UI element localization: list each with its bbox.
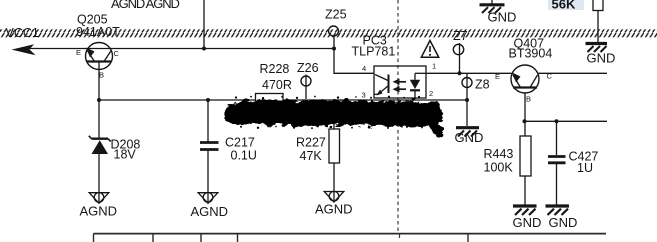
svg-text:2: 2 — [429, 89, 433, 98]
svg-text:R443: R443 — [484, 147, 514, 161]
svg-text:1: 1 — [432, 62, 436, 71]
svg-text:1U: 1U — [577, 161, 593, 175]
svg-text:Z8: Z8 — [475, 78, 490, 92]
svg-text:Z26: Z26 — [297, 61, 319, 75]
svg-text:56K: 56K — [552, 0, 576, 12]
svg-text:E: E — [495, 72, 500, 81]
svg-text:GND: GND — [587, 51, 616, 66]
svg-text:C217: C217 — [225, 136, 255, 150]
svg-text:47K: 47K — [300, 149, 323, 163]
svg-text:AGND: AGND — [80, 204, 118, 219]
svg-text:100K: 100K — [484, 161, 514, 175]
svg-text:GND: GND — [488, 10, 517, 25]
svg-text:GND: GND — [455, 130, 484, 145]
svg-text:18V: 18V — [114, 148, 137, 162]
svg-text:470R: 470R — [262, 78, 292, 92]
svg-text:R227: R227 — [296, 136, 326, 150]
svg-text:B: B — [99, 71, 104, 80]
svg-text:C: C — [114, 49, 120, 58]
svg-text:BT3904: BT3904 — [509, 47, 553, 61]
svg-text:VCC1: VCC1 — [6, 26, 39, 40]
svg-text:AGND: AGND — [315, 202, 353, 217]
svg-text:B: B — [526, 95, 531, 104]
svg-text:Z25: Z25 — [325, 8, 347, 22]
svg-text:3: 3 — [362, 91, 366, 100]
svg-text:GND: GND — [513, 215, 542, 230]
svg-text:R228: R228 — [260, 62, 290, 76]
svg-text:GND: GND — [549, 215, 578, 230]
svg-text:AGND: AGND — [191, 204, 229, 219]
svg-text:C: C — [547, 72, 553, 81]
svg-text:4: 4 — [362, 64, 366, 73]
svg-text:E: E — [76, 48, 81, 57]
svg-text:Z7: Z7 — [453, 29, 468, 43]
svg-text:TLP781: TLP781 — [352, 45, 396, 59]
svg-text:941A0T: 941A0T — [76, 25, 120, 39]
svg-text:0.1U: 0.1U — [231, 149, 257, 163]
svg-text:AGND AGND: AGND AGND — [111, 0, 180, 11]
